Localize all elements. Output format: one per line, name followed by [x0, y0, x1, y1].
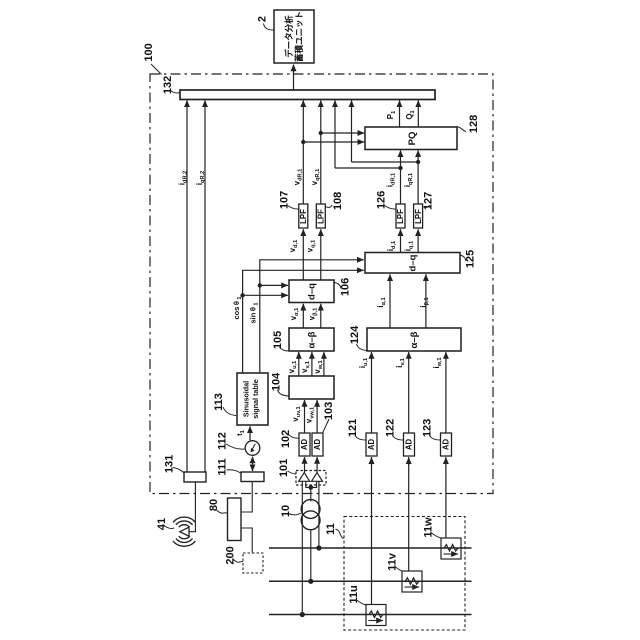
svg-text:LPF: LPF [396, 209, 405, 224]
svg-text:108: 108 [332, 192, 344, 210]
svg-text:128: 128 [468, 115, 480, 133]
svg-text:Sinusoidal: Sinusoidal [242, 381, 251, 417]
svg-text:112: 112 [217, 432, 229, 450]
svg-text:AD: AD [313, 439, 322, 451]
svg-text:103: 103 [323, 402, 335, 420]
svg-text:200: 200 [225, 546, 237, 564]
svg-text:α–β: α–β [409, 331, 420, 348]
svg-text:AD: AD [405, 439, 414, 451]
svg-text:111: 111 [217, 458, 229, 475]
svg-text:104: 104 [271, 372, 283, 391]
svg-text:α–β: α–β [307, 331, 318, 348]
svg-text:signal table: signal table [251, 379, 260, 419]
svg-text:131: 131 [164, 455, 176, 473]
svg-text:LPF: LPF [299, 209, 308, 224]
svg-text:124: 124 [349, 325, 361, 344]
svg-text:2: 2 [257, 16, 269, 22]
svg-text:10: 10 [280, 505, 292, 517]
svg-text:123: 123 [422, 419, 434, 437]
svg-text:d–q: d–q [307, 283, 318, 300]
svg-text:100: 100 [143, 43, 155, 61]
svg-text:11: 11 [325, 523, 337, 535]
svg-text:LPF: LPF [316, 209, 325, 224]
svg-text:125: 125 [465, 250, 477, 268]
svg-text:AD: AD [442, 439, 451, 451]
svg-text:121: 121 [347, 419, 359, 437]
svg-text:PQ: PQ [407, 132, 418, 146]
svg-text:LPF: LPF [414, 209, 423, 224]
svg-text:AD: AD [300, 439, 309, 451]
svg-text:41: 41 [156, 518, 168, 530]
svg-text:d–q: d–q [408, 254, 419, 271]
svg-text:80: 80 [208, 499, 220, 511]
svg-text:蓄積ユニット: 蓄積ユニット [294, 11, 304, 62]
svg-text:122: 122 [385, 419, 397, 437]
svg-text:105: 105 [272, 331, 284, 349]
svg-text:101: 101 [278, 459, 290, 477]
svg-text:AD: AD [367, 439, 376, 451]
svg-text:データ分析: データ分析 [284, 15, 294, 58]
svg-text:102: 102 [280, 430, 292, 448]
svg-text:106: 106 [340, 278, 352, 296]
